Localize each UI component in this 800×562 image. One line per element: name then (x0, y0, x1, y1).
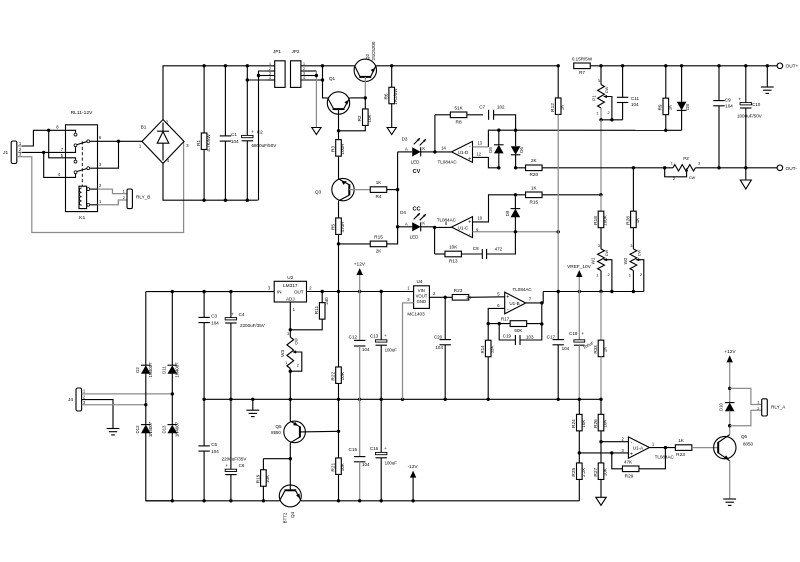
wire R19 link (263, 458, 290, 460)
potentiometer W3 (289, 330, 291, 337)
wire Q3 emitter down (338, 201, 340, 218)
svg-text:U1-C: U1-C (458, 225, 469, 230)
svg-text:2: 2 (673, 176, 675, 181)
transistor Q4 BTT2 (289, 459, 291, 491)
capacitor C20 (444, 297, 446, 339)
wire pin8 tie down to K1 pin 5 (49, 130, 66, 158)
wire feedback drop (541, 303, 543, 324)
wire P1 bottom link to C11 (601, 119, 623, 121)
svg-text:1K: 1K (560, 105, 565, 111)
svg-text:CW: CW (636, 249, 641, 256)
node U1-C output (433, 226, 436, 229)
svg-text:50K: 50K (514, 328, 522, 333)
wire bridge minus down to 0V rail (163, 163, 258, 200)
node D10 top (728, 387, 731, 390)
node Q2 base / R2 (364, 96, 367, 99)
svg-text:R21: R21 (330, 462, 336, 471)
capacitor C18 (578, 292, 580, 340)
svg-text:J1: J1 (3, 150, 8, 156)
svg-text:2.2K: 2.2K (581, 468, 586, 477)
resistor R23 base (675, 445, 692, 451)
svg-text:Q4: Q4 (290, 512, 295, 519)
node C19 left tap (498, 322, 501, 325)
svg-text:47K: 47K (624, 459, 632, 464)
svg-text:104: 104 (211, 321, 219, 326)
svg-text:240: 240 (324, 297, 329, 305)
svg-text:D5: D5 (488, 147, 493, 153)
svg-text:R20: R20 (529, 172, 538, 178)
resistor R11 (321, 292, 323, 303)
wire clamp line right segment (666, 129, 682, 131)
connector RLY_B (127, 189, 132, 209)
svg-text:R1: R1 (196, 140, 202, 146)
diode D9 (514, 195, 516, 209)
svg-text:U1-B: U1-B (509, 301, 519, 306)
node W1 bottom (599, 290, 602, 293)
wire U1-A output (649, 447, 675, 449)
wire U4 VOUT (429, 296, 452, 298)
resistor R19 (262, 459, 264, 470)
node R4 right (396, 188, 399, 191)
svg-text:TL084AC: TL084AC (513, 287, 533, 292)
svg-text:470R: 470R (340, 221, 345, 233)
svg-text:2200uF/35V: 2200uF/35V (222, 456, 248, 461)
svg-text:R12: R12 (550, 103, 556, 112)
svg-text:LM317: LM317 (283, 283, 298, 289)
wire J1 pin2 to K1 pin 7 (22, 151, 66, 153)
svg-text:1K: 1K (678, 438, 684, 443)
wire K1 pin 6 to bridge (98, 140, 143, 142)
ground below JP2 (312, 128, 321, 135)
wire J1 pin3 loop to bridge ac2 (22, 141, 184, 232)
connector J1 (11, 141, 17, 164)
wire R17 line (488, 323, 510, 325)
wire J4 pin1 to D11/D13 (82, 393, 173, 395)
svg-text:1: 1 (269, 62, 271, 66)
svg-text:K: K (422, 221, 425, 226)
svg-text:104: 104 (362, 347, 370, 352)
svg-text:C10: C10 (752, 102, 761, 107)
svg-text:12: 12 (477, 151, 482, 156)
node U4 ground (401, 398, 404, 401)
svg-text:104: 104 (725, 104, 733, 109)
svg-text:C2: C2 (257, 129, 263, 134)
wire U1-D pin13 to clamp top (473, 146, 489, 148)
svg-text:6800uF/50V: 6800uF/50V (252, 143, 278, 148)
svg-text:R29: R29 (625, 473, 634, 479)
node D6 bottom (514, 166, 517, 169)
LED D3 CV (398, 151, 413, 153)
node -12V arrow rail (411, 499, 414, 502)
svg-text:3: 3 (303, 71, 305, 75)
svg-text:D12: D12 (135, 425, 140, 434)
svg-text:100K: 100K (603, 215, 608, 226)
wire VREF line (543, 291, 644, 293)
node C12 ground (358, 398, 361, 401)
svg-text:1N4007: 1N4007 (175, 421, 180, 437)
svg-text:IN: IN (277, 289, 282, 294)
node R5 / R15 junction (337, 242, 340, 245)
node R33 ground (599, 398, 602, 401)
svg-text:R17: R17 (501, 317, 510, 322)
node C10 bottom (744, 166, 747, 169)
resistor R25 (578, 453, 580, 463)
node D6 top (514, 129, 517, 132)
svg-text:10K: 10K (603, 468, 608, 476)
svg-text:R19: R19 (255, 474, 261, 483)
node D5 bottom (497, 166, 500, 169)
capacitor C4 (230, 292, 232, 318)
wire -12V rail b (301, 500, 579, 502)
potentiometer P1 (600, 66, 602, 85)
connector RLY_A (762, 399, 768, 416)
wire LM317 IN line (146, 291, 274, 293)
op-amp U1-D TL084AC (452, 141, 473, 162)
wire J4 pin2 to ground (82, 400, 113, 429)
wire feedback to R29 (639, 448, 665, 469)
svg-text:J4: J4 (68, 397, 73, 403)
wire J1 pin1 to K1 pin 8 (22, 130, 66, 146)
node C17 ground (557, 398, 560, 401)
wire U1-B pin6 (488, 308, 505, 323)
node R9 top (664, 64, 667, 67)
svg-text:R3: R3 (330, 146, 336, 152)
node Q1 collector tap (321, 64, 324, 67)
svg-text:2: 2 (269, 67, 271, 71)
terminal OUT- (777, 165, 783, 171)
capacitor C17 (557, 292, 559, 340)
earth ground at OUT+ (766, 66, 768, 87)
svg-text:C19: C19 (503, 334, 512, 339)
svg-text:1N4007: 1N4007 (148, 362, 153, 378)
wire OUT+ rail (601, 65, 777, 67)
svg-text:W1: W1 (591, 257, 596, 264)
svg-text:VOUT: VOUT (416, 294, 428, 299)
node pin8/pin5 tie (47, 129, 50, 132)
node R6 top (390, 64, 393, 67)
svg-text:JP2: JP2 (292, 49, 300, 54)
node P1 bottom (599, 118, 602, 121)
svg-text:A: A (405, 146, 408, 151)
svg-text:U2: U2 (287, 275, 293, 281)
svg-text:100uF: 100uF (385, 348, 398, 353)
svg-text:10R: 10R (340, 371, 345, 380)
diode D11 1N4007 (171, 292, 173, 366)
svg-text:D6: D6 (519, 147, 524, 153)
svg-text:2: 2 (640, 272, 642, 277)
svg-text:D10: D10 (719, 402, 724, 411)
node U1-A pin2 tap (599, 440, 602, 443)
svg-text:GND: GND (417, 299, 426, 304)
svg-text:Q2: Q2 (365, 54, 370, 61)
resistor R13 (435, 253, 445, 255)
node C13 ground (380, 398, 383, 401)
svg-text:OUT-: OUT- (786, 166, 798, 172)
svg-text:51K: 51K (455, 105, 463, 110)
node R9 to clamp line (664, 129, 667, 132)
wire rail to Q5 base node (338, 399, 340, 431)
svg-text:R22: R22 (330, 371, 336, 380)
resistor R8 (435, 114, 450, 116)
svg-text:10K: 10K (449, 245, 457, 250)
node W3 ground (289, 398, 292, 401)
svg-text:10K: 10K (581, 420, 586, 428)
node U1-D output (433, 150, 436, 153)
svg-text:C15: C15 (349, 447, 358, 452)
wire U1-C pin10 up (473, 195, 516, 222)
capacitor C16 (376, 452, 387, 454)
svg-text:OUT: OUT (294, 289, 304, 294)
transistor Q5 8550 (289, 399, 291, 421)
node R22 ground (337, 398, 340, 401)
svg-text:U4: U4 (416, 279, 422, 285)
svg-text:0.15R/5W: 0.15R/5W (572, 56, 593, 61)
node C4 ground (229, 398, 232, 401)
node D11 cathode to IN line (171, 290, 174, 293)
node J4 pin1 junction (171, 392, 174, 395)
node C13 top (380, 290, 383, 293)
svg-text:R23: R23 (676, 452, 685, 458)
resistor R12 (557, 66, 559, 98)
svg-text:8050: 8050 (743, 441, 754, 446)
svg-text:2K: 2K (531, 158, 537, 163)
wire ground rail (204, 398, 601, 400)
node Q5 base node (337, 430, 340, 433)
node R19 rail (262, 499, 265, 502)
svg-text:R28: R28 (625, 216, 631, 225)
svg-text:2SC5200: 2SC5200 (371, 41, 376, 60)
svg-text:TL084AC: TL084AC (438, 159, 458, 164)
node R1 bottom (202, 199, 205, 202)
svg-text:D13: D13 (162, 425, 167, 434)
LED D4 CC (398, 226, 413, 228)
node R17 right (540, 322, 543, 325)
relay K1 RL11-12V (66, 125, 98, 212)
capacitor C5 (203, 399, 205, 446)
node JP1 pin4 tap (246, 78, 249, 81)
svg-text:C16: C16 (370, 446, 379, 451)
wire U1-A pin3 line (579, 452, 628, 454)
svg-text:VREF_10V: VREF_10V (567, 264, 592, 270)
node U1-A output fb tap (664, 446, 667, 449)
wire U1-C output (435, 226, 452, 228)
svg-text:U1-D: U1-D (458, 150, 469, 155)
wire JP2 pin1 rail continues (301, 65, 355, 67)
wire Q1 collector drop (323, 66, 328, 98)
svg-text:JP1: JP1 (273, 49, 281, 54)
node ADJ / W3 junction (289, 328, 292, 331)
svg-text:C7: C7 (479, 105, 485, 110)
wire U1-A pin2 line (601, 441, 628, 443)
wire RLY_A bottom link (730, 410, 762, 425)
svg-text:104: 104 (231, 139, 239, 144)
svg-text:C20: C20 (434, 334, 443, 339)
svg-text:100uF: 100uF (385, 460, 398, 465)
svg-text:-: - (507, 307, 509, 313)
svg-text:10: 10 (478, 216, 483, 221)
svg-text:C3: C3 (211, 314, 217, 319)
wire RLY_A top link (730, 388, 762, 404)
node W2 bottom (632, 290, 635, 293)
svg-text:C4: C4 (239, 312, 245, 317)
svg-text:R24: R24 (571, 419, 577, 428)
node U1-A pin3 tap (578, 451, 581, 454)
node C2 top (246, 64, 249, 67)
op-amp U1-B TL084AC (505, 292, 526, 314)
resistor R23 (452, 295, 469, 301)
svg-text:C5: C5 (211, 442, 217, 447)
svg-text:C11: C11 (631, 96, 639, 101)
node C9 top (717, 64, 720, 67)
node CC set tap on OUT- (632, 166, 635, 169)
svg-text:RL11-12V: RL11-12V (71, 110, 94, 116)
node pin2/pin4 tie (42, 151, 45, 154)
svg-text:W3: W3 (280, 350, 285, 357)
relay K1 contact group A (66, 130, 76, 133)
wire OUT- line (516, 167, 673, 169)
ground symbol on rail (251, 398, 254, 401)
capacitor C10 (745, 66, 747, 103)
svg-text:2: 2 (607, 272, 609, 277)
wire LM317 out line (307, 291, 414, 293)
node pin6 fb node (487, 322, 490, 325)
svg-text:A: A (405, 221, 408, 226)
wire CV sense vertical (397, 152, 399, 227)
diode D8 (681, 66, 683, 102)
svg-text:CC: CC (412, 207, 420, 213)
svg-text:Q6: Q6 (741, 434, 748, 439)
terminal OUT+ (777, 63, 783, 69)
wire -12V rail (146, 500, 280, 502)
node R21 rail (337, 499, 340, 502)
transistor Q6 8050 (714, 436, 736, 458)
svg-text:MC1403: MC1403 (407, 312, 425, 317)
relay K1 actuator dashed link (81, 141, 83, 186)
svg-text:W2: W2 (623, 257, 628, 264)
node C10 top (744, 64, 747, 67)
resistor R14 (487, 324, 489, 341)
node +12V main vertical tap (337, 290, 340, 293)
svg-text:R23: R23 (454, 288, 463, 294)
node J4 pin3 junction (144, 403, 147, 406)
node output/feedback tap (540, 301, 543, 304)
potentiometer P2 (673, 165, 696, 171)
diode D12 1N4007 (145, 405, 147, 425)
resistor R16 (526, 192, 543, 198)
svg-text:D11: D11 (162, 366, 167, 374)
node R29 feedback tap (610, 451, 613, 454)
svg-text:CW: CW (604, 86, 609, 93)
node JP2 pin3 tie (315, 74, 318, 77)
resistor R28 (632, 168, 634, 211)
resistor R3 (336, 140, 342, 157)
svg-text:102: 102 (497, 105, 505, 110)
svg-text:R7: R7 (579, 70, 585, 76)
svg-text:1K: 1K (376, 180, 382, 185)
svg-text:13: 13 (478, 140, 483, 145)
svg-text:D3: D3 (402, 137, 408, 142)
svg-text:2: 2 (303, 67, 305, 71)
node D10 bottom (728, 424, 731, 427)
wire feedback up to R8 (434, 115, 436, 152)
svg-text:D4: D4 (400, 210, 406, 215)
node C9 bottom (717, 166, 720, 169)
relay K1 coil (79, 186, 87, 208)
node U4 VOUT tap (444, 296, 447, 299)
resistor R33 (600, 292, 602, 341)
wire JP2 pins 2-3 to ground (315, 71, 317, 128)
svg-text:104: 104 (562, 346, 570, 351)
wire Q3 base to R4 (349, 189, 370, 191)
resistor R29 (622, 466, 639, 472)
svg-text:+: + (231, 312, 234, 317)
svg-text:1K: 1K (635, 218, 640, 224)
relay K1 contact group B (66, 158, 76, 160)
svg-text:-12V: -12V (408, 464, 419, 470)
svg-text:LED: LED (411, 160, 421, 165)
svg-text:10K: 10K (265, 475, 270, 483)
svg-text:+: + (468, 219, 471, 225)
wire R5 node down to +12V line (338, 244, 340, 292)
node C1 top (224, 64, 227, 67)
node R16 right to CV net (599, 193, 602, 196)
capacitor C3 (203, 292, 205, 318)
svg-text:1: 1 (596, 273, 598, 278)
op-amp U1-C TL084AC (452, 217, 473, 238)
resistor R21 (338, 431, 340, 458)
svg-text:1K: 1K (466, 295, 471, 300)
svg-text:100R: 100R (340, 143, 345, 155)
svg-text:1K: 1K (603, 347, 608, 353)
node C18 ground (578, 398, 581, 401)
svg-text:103: 103 (526, 335, 534, 340)
capacitor C19 (499, 324, 515, 340)
node W1 wiper tie (610, 290, 613, 293)
svg-text:+: + (738, 97, 741, 102)
svg-text:2K: 2K (376, 249, 382, 254)
wire pin2 tie down to K1 pin 4 (44, 152, 66, 177)
svg-text:R13: R13 (449, 259, 458, 265)
svg-text:D9: D9 (505, 210, 510, 216)
wire Q6 emitter down (729, 461, 731, 499)
resistor R4 (370, 187, 387, 193)
svg-text:2200uF/35V: 2200uF/35V (240, 323, 266, 328)
resistor R5 (336, 218, 342, 235)
capacitor C12 (354, 339, 365, 341)
svg-text:C9: C9 (725, 98, 731, 103)
svg-text:C1: C1 (231, 132, 237, 137)
capacitor C8 (481, 249, 483, 259)
svg-text:+: + (384, 447, 387, 452)
svg-text:1: 1 (285, 360, 287, 365)
ground below R6 (387, 128, 396, 135)
svg-text:+: + (581, 332, 584, 337)
resistor R20 (526, 165, 543, 171)
resistor R26 (600, 399, 602, 414)
wire clamp top line (499, 129, 666, 131)
svg-text:472: 472 (495, 247, 503, 252)
svg-text:14: 14 (441, 145, 446, 150)
svg-text:1000uF/50V: 1000uF/50V (737, 114, 763, 119)
wire P1 net down (CV set) (600, 120, 602, 195)
node P1 top (599, 64, 602, 67)
node R11 top (321, 290, 324, 293)
svg-text:+: + (468, 156, 471, 162)
svg-text:RLY_A: RLY_A (771, 405, 786, 410)
svg-text:B1: B1 (141, 124, 147, 130)
svg-text:ADJ: ADJ (286, 297, 295, 302)
capacitor C15 (354, 456, 365, 458)
